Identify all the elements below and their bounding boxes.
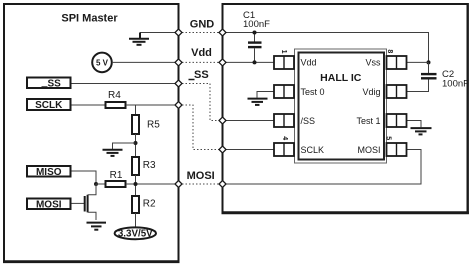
wire Vdd rail dotted (179, 61, 223, 63)
node diamond Vdd right (219, 59, 226, 66)
ground symbol top-left (129, 33, 149, 45)
ground symbol Test0 (248, 99, 268, 105)
wire R5 to R3 (135, 134, 137, 157)
pin 2 Test0 (274, 85, 294, 98)
svg-text:100nF: 100nF (442, 79, 469, 90)
svg-text:GND: GND (190, 19, 215, 31)
pin 3 /SS (274, 114, 294, 127)
wire MOSI to gate (72, 202, 85, 204)
svg-text:4: 4 (281, 136, 288, 140)
pin 6 Test1 (387, 114, 407, 127)
wire R4 junction to R5 (135, 105, 137, 115)
port box MISO (27, 166, 71, 177)
supply 3.3V/5V (115, 227, 156, 239)
pin 7 Vdig (387, 85, 407, 98)
node diamond SCLK right (219, 146, 226, 153)
node diamond SCLK left (175, 102, 182, 109)
ground symbol transistor source (87, 223, 107, 230)
svg-text:SCLK: SCLK (301, 145, 325, 155)
node R1-R3-R2 junction (134, 182, 138, 186)
wire Vdd rail left (112, 61, 179, 63)
svg-text:SCLK: SCLK (35, 100, 63, 111)
svg-text:R4: R4 (108, 90, 121, 101)
svg-text:Vdig: Vdig (362, 87, 380, 97)
channel bar (87, 195, 89, 213)
wire GND rail left (140, 32, 179, 34)
svg-text:R1: R1 (110, 170, 123, 181)
node diamond MOSI left (175, 181, 182, 188)
node diamond MOSI right (219, 181, 226, 188)
resistor R2 (132, 196, 139, 213)
svg-text:R5: R5 (147, 120, 160, 131)
wire GND rail dotted (179, 32, 223, 34)
pin 5 MOSI (385, 136, 407, 156)
node R5-R3 junction (134, 141, 138, 145)
wire MOSI right box route (223, 150, 422, 185)
port box SCLK (27, 99, 71, 110)
svg-text:HALL IC: HALL IC (320, 72, 362, 84)
wire MOSI dotted (179, 183, 223, 185)
svg-text:/SS: /SS (301, 116, 316, 126)
svg-text:8: 8 (386, 49, 393, 53)
capacitor C2 (407, 60, 470, 91)
svg-text:R3: R3 (143, 160, 156, 171)
wire SCLK dotted route (179, 105, 223, 150)
wire R2 to supply oval (135, 213, 137, 228)
pin 4 SCLK (274, 136, 294, 156)
svg-text:MOSI: MOSI (36, 199, 62, 210)
svg-text:MOSI: MOSI (357, 145, 380, 155)
resistor R1 (106, 181, 126, 187)
wire GND rail right (223, 33, 429, 63)
wire _SS left (72, 83, 179, 85)
pin 1 Vdd (274, 50, 294, 69)
svg-text:5 V: 5 V (96, 58, 109, 67)
node diamond GND left (175, 29, 182, 36)
node diamond GND right (219, 29, 226, 36)
svg-text:100nF: 100nF (243, 19, 270, 30)
ground symbol mid-left (103, 150, 123, 156)
wire R1 to box edge MOSI rail (126, 183, 179, 185)
svg-text:R2: R2 (143, 199, 156, 210)
node diamond Vdd left (175, 59, 182, 66)
source V1 5V (92, 53, 112, 73)
IC U1 HALL IC body (295, 49, 387, 163)
svg-text:SS: SS (48, 78, 62, 89)
wire R4 to box edge (126, 104, 179, 106)
wire Vdd rail right (223, 61, 275, 63)
resistor R5 (132, 115, 139, 134)
ground symbol Test1 (411, 128, 432, 134)
svg-text:Test 1: Test 1 (356, 116, 380, 126)
drain stub (88, 184, 96, 195)
resistor R4 (106, 102, 126, 108)
port box _SS (27, 78, 71, 89)
wire Vss pin to C2 (407, 61, 429, 63)
gate bar (84, 196, 86, 212)
wire Test1 to ground (407, 121, 422, 128)
svg-text:SPI Master: SPI Master (61, 13, 118, 25)
sensor module box (223, 4, 468, 213)
svg-text:MISO: MISO (36, 167, 62, 178)
wire Test0 to ground (257, 92, 274, 98)
svg-text:5: 5 (385, 136, 392, 140)
svg-text:3.3V/5V: 3.3V/5V (118, 229, 153, 240)
node diamond _SS left (175, 80, 182, 87)
svg-text:SS: SS (194, 69, 209, 81)
wire /SS right (223, 120, 275, 122)
transistor Q1 (85, 184, 96, 220)
port box MOSI (27, 199, 71, 210)
resistor R3 (132, 157, 139, 175)
node drain junction (94, 182, 98, 186)
node diamond /SS right (219, 117, 226, 124)
wire node to R1 (96, 183, 105, 185)
wire _SS dotted route (179, 84, 223, 121)
svg-text:1: 1 (280, 50, 287, 54)
svg-text:Vdd: Vdd (301, 58, 317, 68)
wire R3 to MOSI rail (135, 175, 137, 196)
wire ground tap (113, 143, 136, 149)
source stub (88, 212, 96, 220)
SPI Master box (4, 4, 179, 262)
wire SCLK right (223, 149, 275, 151)
svg-text:Test 0: Test 0 (301, 87, 325, 97)
svg-text:Vdd: Vdd (191, 47, 212, 59)
svg-text:Vss: Vss (365, 58, 381, 68)
svg-text:MOSI: MOSI (187, 170, 215, 182)
pin 8 Vss (386, 49, 407, 69)
capacitor C1 (243, 10, 270, 64)
wire MISO to drain node (72, 171, 97, 184)
wire SCLK to R4 (72, 104, 106, 106)
